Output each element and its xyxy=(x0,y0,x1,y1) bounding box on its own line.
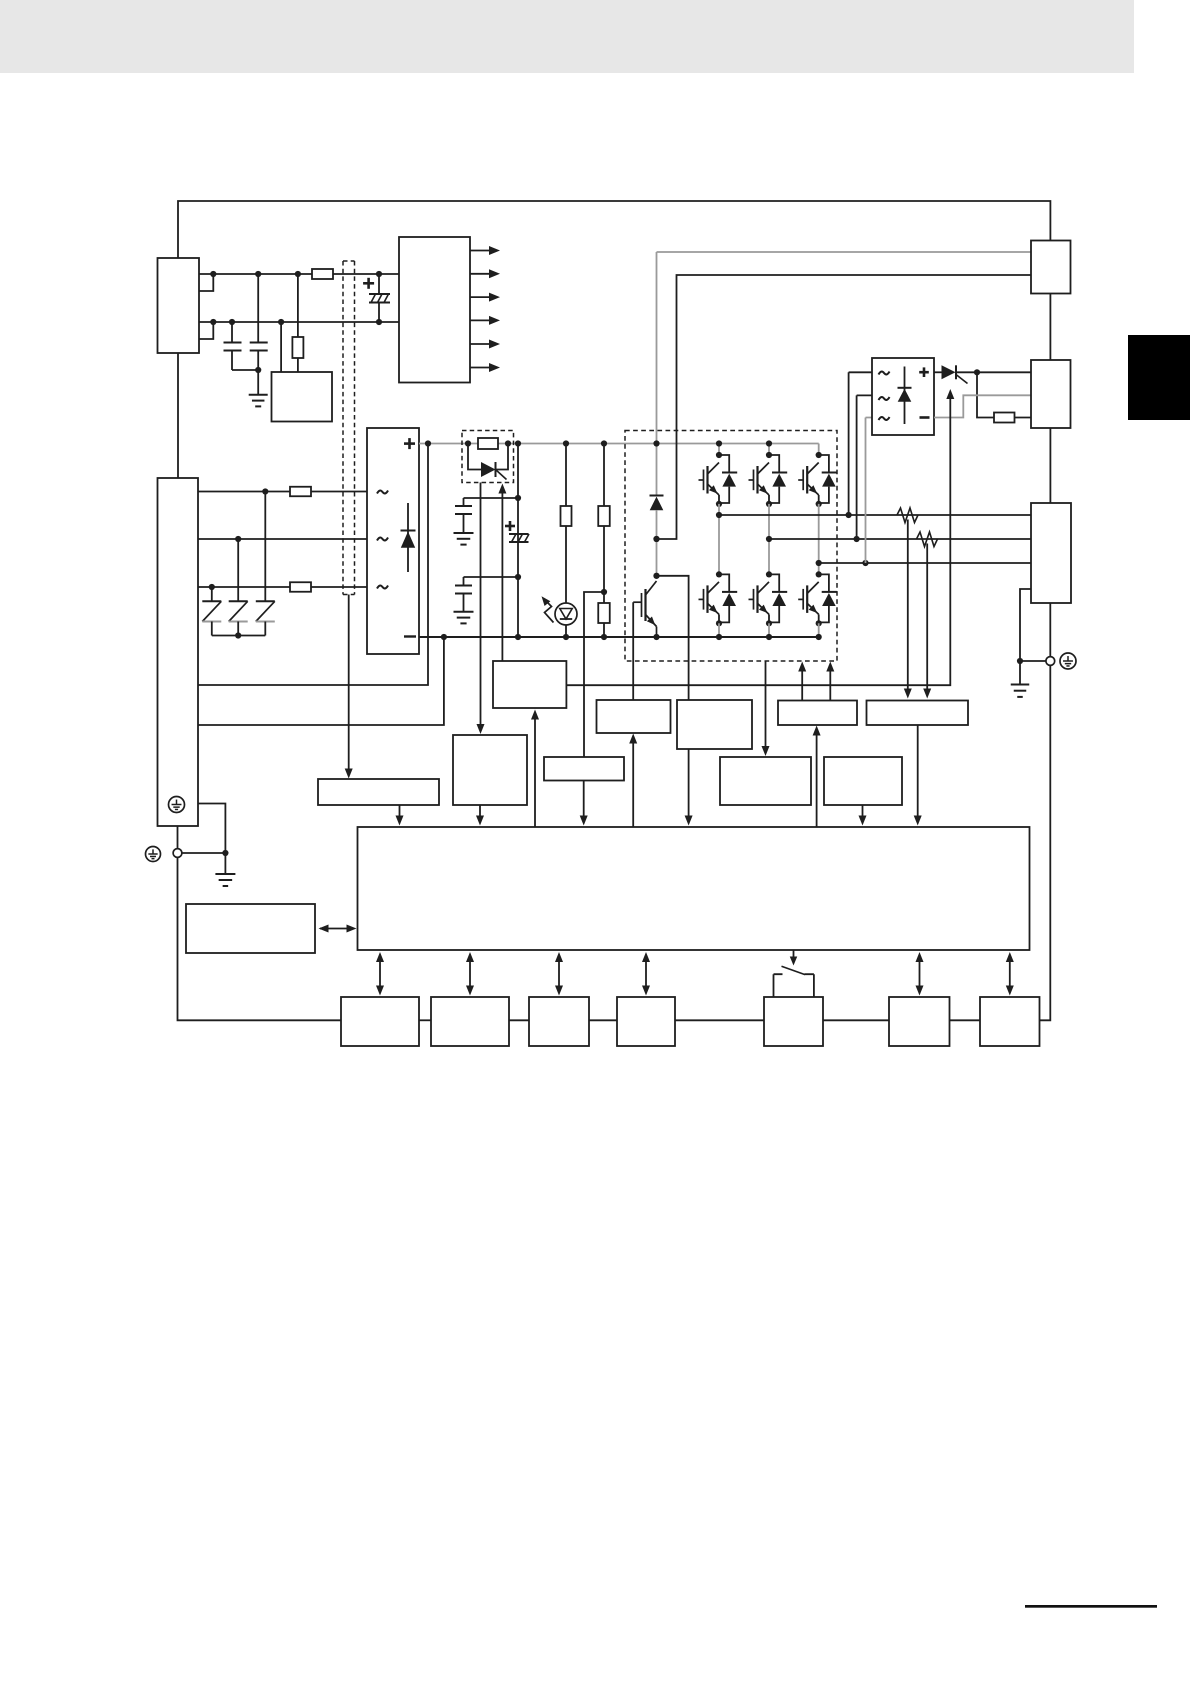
wire: leg3 DC+ stub (gray) xyxy=(818,444,820,456)
wire: brake node to regen connector (black, up at x=676.5) xyxy=(657,275,1032,539)
wire: leg1 phase riser (gray) xyxy=(718,504,720,575)
node: chassis ground dot xyxy=(222,850,228,856)
wire: brake collector to regen detect block xyxy=(657,576,689,700)
wire: MPU to safety switch (arrow down) xyxy=(790,950,798,966)
label: + inside regen rectifier xyxy=(919,367,929,377)
wire: regen resistor to connector xyxy=(1015,417,1032,419)
wire: smoothing-capacitor branch xyxy=(517,444,519,638)
label: ~ inputs of regen rectifier xyxy=(879,372,890,421)
wire: B to MPU (arrow down) xyxy=(476,805,484,826)
connector: CN4 (bottom row 4) xyxy=(617,997,675,1046)
wire: MPU to C (arrow up) xyxy=(531,710,539,828)
node: FG junction xyxy=(1017,658,1023,664)
wire: leg3 DC- stub (gray) xyxy=(818,623,820,637)
switch: safety bypass switch above CN5 xyxy=(774,966,814,997)
node: regen output dot xyxy=(974,369,980,375)
wire: control line 1 (y=274) xyxy=(199,273,399,275)
terminal stub: L2C pin xyxy=(199,322,213,339)
wire: cap feed lower xyxy=(464,576,519,578)
wire: MPU to bottom connector at x=470 (double arrow) xyxy=(466,952,474,996)
wire: MPU to bottom connector at x=646 (double arrow) xyxy=(642,952,650,996)
surge absorber 2 (under L2) xyxy=(229,539,248,636)
node: L3 dot xyxy=(209,584,215,590)
diode: inside main rectifier xyxy=(401,503,416,572)
block: brake gate drive (E) xyxy=(597,700,671,733)
connector: control-circuit power input block (top-left) xyxy=(158,258,200,353)
wire: MPU to bottom connector at x=919.5 (double arrow) xyxy=(916,952,924,996)
node: regen rectifier taps xyxy=(846,512,869,566)
node: cap branch dots xyxy=(515,495,521,580)
capacitor: Y-cap lower xyxy=(454,577,474,623)
wire: isolation boundary to display block (arrow down) xyxy=(345,595,353,779)
wire: internal regen resistor feed (gray, upper) xyxy=(657,252,1032,444)
resistor: startup resistor (vertical) xyxy=(292,274,303,372)
barrier: isolation boundary (tall dashed box) xyxy=(343,261,355,595)
wire: leg2 DC- stub (gray) xyxy=(768,623,770,637)
terminal stub: L1C pin xyxy=(199,274,213,291)
label: - inside regen rectifier xyxy=(920,416,930,419)
wire: arrester common xyxy=(212,635,265,637)
block: main voltage detector (C) xyxy=(493,661,566,708)
node: L2 dot xyxy=(235,536,241,542)
wire: earth terminal down to bottom bus xyxy=(1040,665,1051,1020)
wire: DC- bus xyxy=(419,636,819,638)
IGBT: lower transistor leg2 with flyback diode xyxy=(749,571,788,626)
surge absorber 3 (under L1) xyxy=(256,492,275,636)
block: inrush relay drive (B) xyxy=(453,735,527,805)
resistor: inrush resistor on L1 xyxy=(290,487,311,497)
page: top gray header band xyxy=(0,0,1134,73)
wire: between right connectors xyxy=(1049,294,1051,361)
wire: H to MPU (arrow down) xyxy=(859,805,867,826)
terminal: protective-earth terminal (open circle) xyxy=(1046,657,1055,666)
wire: W riser to regen rectifier (gray) xyxy=(866,418,873,564)
wire: phase L2 xyxy=(198,538,367,540)
IGBT: lower transistor leg3 with flyback diode xyxy=(798,571,837,626)
symbol: protective earth (left outside) xyxy=(146,847,161,862)
capacitor: main smoothing electrolytic (+ and hatched plate) xyxy=(505,521,529,542)
resistor: divider lower xyxy=(598,603,610,623)
node: DC- bus dots xyxy=(441,634,822,640)
wire: V riser to regen rectifier xyxy=(857,395,872,539)
resistor: regeneration series resistor xyxy=(994,413,1015,423)
ground: control filter ground xyxy=(249,370,268,406)
wire: motor connector bottom to earth terminal xyxy=(1049,603,1051,657)
thyristor: regeneration switch xyxy=(934,365,1031,383)
wire: charge-lamp branch xyxy=(565,444,567,638)
wire: earth link to chassis ground xyxy=(182,804,226,854)
connector: CN1 (bottom row 1) xyxy=(341,997,419,1046)
thyristor: inrush bypass element xyxy=(468,444,508,480)
wire: DC+ bus (gray) xyxy=(419,443,819,445)
wire: control line 2 (y=322) xyxy=(199,321,399,323)
rectifier: regeneration rectifier block xyxy=(872,358,934,435)
resistor: charge-lamp resistor xyxy=(561,506,572,526)
block: temperature detect (K) xyxy=(720,757,811,805)
wire: cap feed upper xyxy=(464,497,519,499)
node: brake collector node xyxy=(653,573,659,579)
connector: CN7 (bottom row 7) xyxy=(980,997,1040,1046)
wire: MPU to bottom connector at x=559 (double arrow) xyxy=(555,952,563,996)
wire: MPU to bottom connector at x=380 (double arrow) xyxy=(376,952,384,996)
terminal: earth terminal (open circle, left) xyxy=(173,849,182,858)
wire: rectifier + return to terminal block xyxy=(198,444,428,686)
capacitor: X-cap C2 (right, from line 1) xyxy=(250,274,268,370)
wire: leg1 DC- stub (gray) xyxy=(718,623,720,637)
capacitor: Y-cap upper xyxy=(454,498,474,545)
wire: DC- return to terminal block xyxy=(198,637,444,725)
LED: charge lamp xyxy=(555,603,577,625)
wire: top border from left column to connector block CN-top-right xyxy=(178,201,1050,258)
wire: V phase output xyxy=(769,538,1031,540)
block: protection detect (H) xyxy=(824,757,902,805)
wire: U riser to regen rectifier xyxy=(849,372,872,515)
wire: inrush bypass drive (arrow up from voltage detector) xyxy=(498,484,506,662)
wire: FG stub from motor connector xyxy=(1020,589,1031,661)
wire: phase L1 xyxy=(198,491,367,493)
block: regeneration detect (G) xyxy=(677,700,752,749)
wire: brake node down to transistor (gray) xyxy=(656,539,658,576)
block: MPU / main control (large) xyxy=(358,827,1030,950)
wire: leg2 DC+ stub (gray) xyxy=(768,444,770,456)
IGBT: upper transistor leg3 with flyback diode xyxy=(798,452,837,507)
wire: W phase output xyxy=(819,562,1031,564)
connector: motor power connector (U V W FG) xyxy=(1031,503,1071,603)
wire: regen resistor drop xyxy=(977,372,994,417)
diode: brake freewheel diode xyxy=(650,496,664,540)
node: arrester common dot xyxy=(235,632,241,638)
wire: brake diode feed (gray, from DC+ bus) xyxy=(656,444,658,496)
wire: leg2 phase riser (gray) xyxy=(768,504,770,575)
ground: frame ground under FG xyxy=(1011,661,1030,697)
IGBT: lower transistor leg1 with flyback diode xyxy=(699,571,738,626)
wire: MPU to E (arrow up) xyxy=(629,734,637,828)
wire: terminal block to earth terminal xyxy=(177,826,179,849)
wire: U current sense to detect block (arrow down) xyxy=(904,520,912,699)
sensor: current detector on V line xyxy=(917,532,938,547)
ground: chassis ground (left) xyxy=(215,853,235,886)
block: current detect (J) xyxy=(867,701,969,726)
block: inverter gate drive (I) xyxy=(778,701,857,726)
node: brake branch dots xyxy=(653,536,659,579)
node: L1 dot xyxy=(262,488,268,494)
module: power module outline (dashed) xyxy=(625,431,837,662)
IGBT: upper transistor leg2 with flyback diode xyxy=(749,452,788,507)
wire: bottom bus from earth terminal xyxy=(178,857,342,1020)
label: ~ inputs of rectifier xyxy=(377,491,388,589)
wire: leg3 phase riser (gray) xyxy=(818,504,820,575)
node: cap junction xyxy=(255,367,261,373)
wire: regen rectifier minus loop (gray) xyxy=(934,395,1031,417)
connector: CN3 (bottom row 3) xyxy=(529,997,589,1046)
wire: phase L3 xyxy=(198,586,367,588)
label: + inside rectifier xyxy=(404,438,415,449)
wire: line-2 drop to SMPS xyxy=(280,322,282,372)
connector: CN6 (bottom row 6) xyxy=(889,997,950,1046)
capacitor: electrolytic across control lines (+ mark) xyxy=(363,274,390,322)
wire: MPU to bottom connector at x=1009.8 (double arrow) xyxy=(1006,952,1014,996)
block: control interface IC (6 outputs) xyxy=(399,237,470,383)
symbol: protective earth inside terminal block xyxy=(169,797,185,813)
node: dots on control line 2 xyxy=(210,319,382,325)
page: black section tab on right edge xyxy=(1128,335,1190,420)
sensor: current detector on U line xyxy=(897,508,918,523)
wire: A to MPU (arrow down) xyxy=(396,805,404,826)
symbol: protective earth (right) xyxy=(1060,653,1076,669)
block: control switching power supply xyxy=(272,372,333,422)
resistor: divider upper xyxy=(598,506,610,526)
connector: main-circuit power terminal block (left tall) xyxy=(158,478,199,826)
IGBT: upper transistor leg1 with flyback diode xyxy=(699,452,738,507)
wire: U phase output xyxy=(719,514,1031,516)
node: divider tap xyxy=(601,589,607,595)
resistor: inrush resistor on L3 xyxy=(290,582,311,592)
wire: G to MPU (arrow down) xyxy=(685,749,693,826)
block: panel display (F) xyxy=(186,904,315,953)
wire: D to MPU (arrow down) xyxy=(580,781,588,826)
connector: internal regeneration resistor terminals xyxy=(1031,241,1071,294)
transistor: dynamic-brake IGBT xyxy=(633,581,658,637)
rectifier: main bridge block xyxy=(367,428,419,654)
relay: inrush-suppression bypass (dashed box) xyxy=(462,431,514,483)
node: brake diode bottom xyxy=(653,536,659,542)
wire: regeneration control line (from voltage detect to thyristor, arrow up) xyxy=(566,389,954,685)
wire: bottom bus segments between connectors xyxy=(419,1019,980,1021)
block: divider voltage detect (D) xyxy=(544,757,624,781)
wire: leg1 DC+ stub (gray) xyxy=(718,444,720,456)
arrow: lamp light indicator xyxy=(539,594,554,623)
wire: V current sense to detect block (arrow down) xyxy=(923,544,931,699)
wire: left outer drop between top connector and main terminal block xyxy=(177,353,179,478)
page: footer rule xyxy=(1025,1605,1157,1608)
wire: gate drive to module (two arrows up) xyxy=(798,662,834,701)
wire: brake gate drive from block E xyxy=(632,602,634,700)
wire: FG to earth terminal xyxy=(1020,660,1046,662)
diode: inside regen rectifier xyxy=(898,367,912,425)
connector: CN2 (bottom row 2) xyxy=(431,997,509,1046)
resistor: inrush power resistor on DC+ bus xyxy=(478,438,498,449)
block: display / keypad interface (A) xyxy=(318,779,439,805)
node: DC+ bus dots xyxy=(425,440,772,446)
wire: divider tap to voltage detect block xyxy=(584,592,604,757)
resistor: filter resistor on control line 1 xyxy=(312,269,333,279)
label: - inside rectifier xyxy=(404,635,416,637)
wire: inrush control to relay-drive block (arrow down) xyxy=(477,483,485,735)
wire: regen connector to motor connector xyxy=(1049,428,1051,503)
wire: module to K (arrow down) xyxy=(762,661,770,756)
node: dots on control line 1 xyxy=(210,271,382,277)
wire: MPU to I (arrow up) xyxy=(813,726,821,828)
wire: F to MPU (double arrow) xyxy=(319,925,357,933)
connector: external regeneration resistor terminals xyxy=(1031,360,1071,428)
connector: CN5 (bottom row 5, with switch) xyxy=(764,997,823,1046)
capacitor: X-cap C1 (left) xyxy=(224,322,259,370)
arrows: six output signals xyxy=(470,246,500,372)
surge absorber 1 (under L3) xyxy=(202,587,221,636)
wire: J to MPU (arrow down) xyxy=(914,725,922,826)
node: phase output taps xyxy=(716,512,822,566)
wire: detection divider branch xyxy=(603,444,605,638)
